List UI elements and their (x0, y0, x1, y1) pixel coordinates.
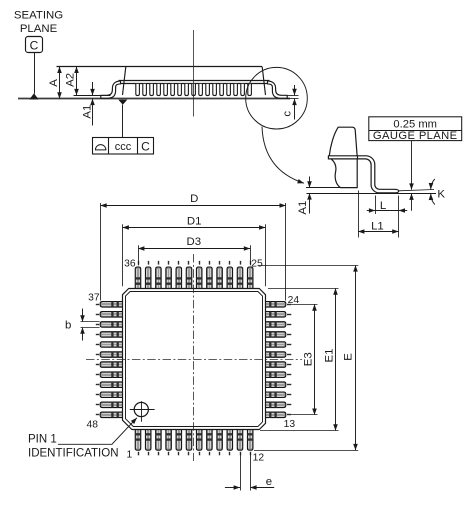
svg-text:A1: A1 (82, 105, 94, 119)
svg-text:L: L (380, 200, 386, 212)
svg-text:25: 25 (251, 259, 263, 270)
svg-text:24: 24 (288, 295, 300, 306)
svg-text:A1: A1 (297, 201, 309, 215)
svg-text:D: D (190, 193, 198, 205)
svg-text:1: 1 (127, 450, 133, 461)
svg-text:GAUGE PLANE: GAUGE PLANE (373, 130, 458, 142)
svg-text:A: A (48, 79, 60, 87)
svg-text:L1: L1 (371, 221, 384, 233)
svg-text:12: 12 (253, 452, 265, 463)
svg-text:0.25 mm: 0.25 mm (393, 118, 437, 130)
svg-text:c: c (282, 111, 294, 117)
svg-text:SEATING: SEATING (14, 10, 63, 22)
svg-text:36: 36 (124, 259, 136, 270)
svg-text:13: 13 (284, 419, 296, 430)
svg-text:E1: E1 (324, 349, 336, 363)
svg-text:IDENTIFICATION: IDENTIFICATION (28, 448, 119, 460)
svg-text:E3: E3 (302, 352, 314, 366)
svg-text:48: 48 (87, 419, 99, 430)
svg-text:C: C (141, 140, 150, 154)
svg-text:K: K (437, 189, 445, 201)
svg-text:D1: D1 (187, 215, 202, 227)
svg-text:PIN 1: PIN 1 (28, 434, 57, 446)
svg-text:ccc: ccc (115, 141, 132, 153)
svg-text:D3: D3 (187, 236, 202, 248)
svg-text:A2: A2 (64, 73, 76, 87)
svg-text:PLANE: PLANE (20, 23, 58, 35)
svg-text:E: E (343, 353, 355, 361)
svg-text:b: b (65, 320, 71, 332)
svg-text:C: C (30, 38, 39, 52)
svg-text:e: e (266, 476, 272, 488)
svg-text:37: 37 (88, 293, 100, 304)
